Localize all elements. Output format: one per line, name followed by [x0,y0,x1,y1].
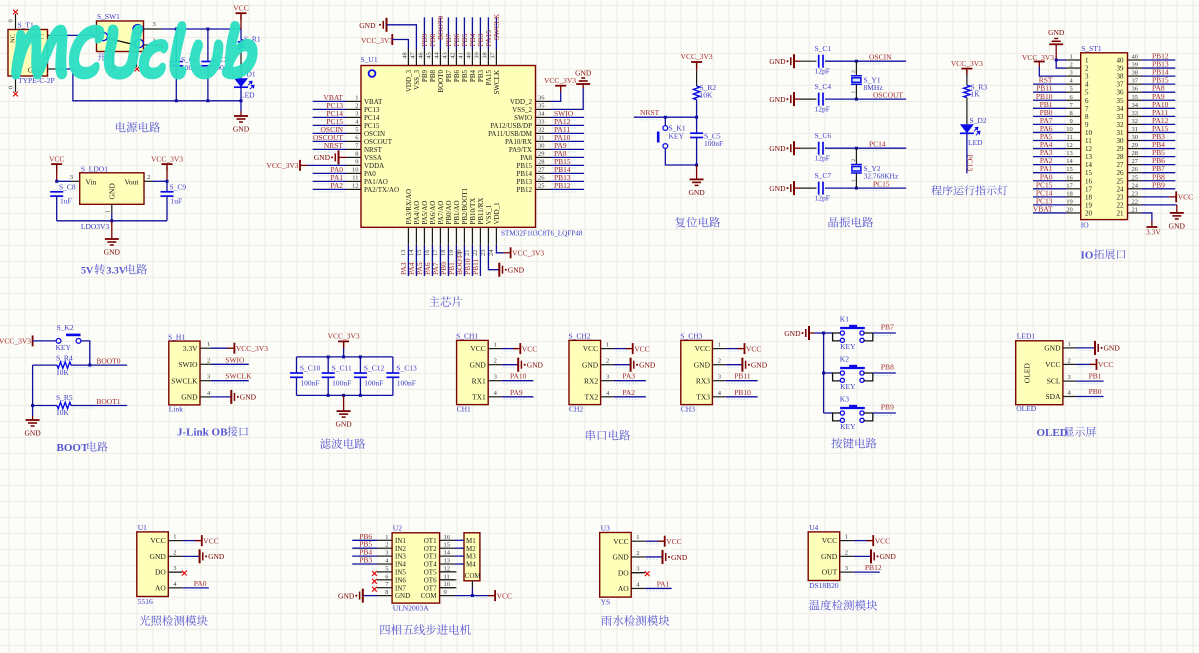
svg-text:37: 37 [1132,78,1139,85]
wire/net PA1 to ST1 pin 15 [1033,172,1066,174]
wire/net PB11 RX of S_CH3 [726,380,758,382]
power port VCC at LDO input [51,164,62,171]
wire/net PB11 at U1 pin 22 [479,245,481,276]
power VCC_3V3 at U1 VDDA [300,160,307,171]
svg-text:PC13: PC13 [364,106,380,114]
U1 pin 8 VSSA [346,156,361,158]
svg-text:10K: 10K [56,368,70,377]
junction R5 left [31,404,34,407]
U2 pin 4 IN4 [377,563,392,565]
LED1 pin 3 SCL [1063,380,1076,382]
svg-text:VCC: VCC [695,344,710,353]
ST1 pin 4 [1066,83,1081,85]
svg-text:33: 33 [1117,113,1125,121]
U1 pin 43 PB7 [447,50,449,66]
svg-text:S_C13: S_C13 [396,364,417,373]
ST1 pin 28 [1128,156,1143,158]
H1 pin 4 GND [200,396,211,398]
svg-text:3: 3 [1068,374,1071,381]
ST1 pin 14 [1066,164,1081,166]
U1 pin 23 VSS_1 [487,227,489,244]
wire/net VBAT to ST1 pin 20 [1033,212,1066,214]
switch S_SW1 [97,21,144,52]
svg-text:39: 39 [474,52,481,59]
U1 pin 4 AO [168,587,182,589]
svg-text:29: 29 [1132,142,1139,149]
svg-text:VSS_1: VSS_1 [485,204,493,224]
junction LED column at bottom rail [240,99,243,102]
wire U2 OT4 to M4 [455,563,464,565]
svg-text:GND: GND [108,183,117,200]
capacitor S_C8 1uF [50,192,63,196]
wire/net SWIO [211,363,249,365]
svg-text:PA7/AO: PA7/AO [437,201,445,225]
svg-text:IO: IO [1081,221,1089,230]
wire/net PA2 to ST1 pin 14 [1033,164,1066,166]
ground GND at U1 VSS_2 [551,88,584,109]
U4 pin 3 OUT [840,571,854,573]
svg-text:4: 4 [1085,81,1089,89]
ST1 pin 9 [1066,123,1081,125]
S_CH1 pin 3 RX1 [488,380,501,382]
svg-text:36: 36 [1117,89,1125,97]
svg-text:27: 27 [1117,161,1125,169]
svg-text:IO: IO [1081,249,1094,261]
svg-text:2: 2 [851,70,857,73]
SW1 bottom stubs no-connect [112,52,114,68]
svg-text:GND: GND [181,393,198,402]
capacitor S_C7 12pF [800,187,817,189]
svg-text:12: 12 [1066,142,1073,149]
title 滤波电路 [320,438,365,449]
svg-text:GND: GND [470,360,487,369]
svg-text:100nF: 100nF [704,139,723,148]
svg-text:12pF: 12pF [815,67,830,76]
svg-text:19: 19 [1085,201,1093,209]
ground GND at U3 [645,556,662,558]
svg-text:M1: M1 [466,537,476,545]
svg-text:40: 40 [1132,54,1139,61]
svg-text:9: 9 [355,159,358,166]
svg-text:2: 2 [1085,65,1089,73]
wire/net PA9 TX of S_CH1 [502,396,534,398]
U2 pin 15 OT2 [440,547,455,549]
svg-text:S_C7: S_C7 [815,171,832,180]
wire/net PA15 from ST1 pin 31 [1142,131,1175,133]
svg-text:3: 3 [355,111,358,118]
wire/net PA0 AO of U1 [182,587,209,589]
wire/net PA12 from ST1 pin 32 [1142,123,1175,125]
svg-text:PC15: PC15 [873,180,890,189]
S_CH1 pin 4 TX1 [488,396,501,398]
svg-text:GND: GND [1104,344,1121,353]
svg-text:S_CH3: S_CH3 [680,332,702,341]
sensor U4 DS18B20 [808,532,840,581]
U2 pin 14 OT3 [440,555,455,557]
title 四相五线步进电机 [380,624,470,635]
svg-text:GND: GND [208,552,225,561]
svg-text:24: 24 [1117,185,1125,193]
svg-text:OT7: OT7 [424,584,437,592]
junction filter rails [327,355,330,358]
svg-text:PB5: PB5 [461,70,469,83]
svg-text:PB0: PB0 [1089,387,1102,396]
wire T1 GND to bottom rail [48,68,61,70]
svg-text:12pF: 12pF [815,194,830,203]
U1 pin 1 VBAT [346,100,361,102]
power VCC_3V3 at U1 VDD_2 [551,92,561,101]
svg-text:11: 11 [352,175,358,182]
svg-text:PC15: PC15 [364,122,380,130]
svg-text:GND: GND [150,552,167,561]
svg-text:3: 3 [385,550,388,557]
svg-text:8: 8 [385,589,388,596]
U1 pin 31 PA10/RX [536,140,551,142]
svg-text:S_C11: S_C11 [332,364,352,373]
svg-text:3: 3 [494,374,497,381]
wire filter bottom rail [297,394,393,396]
svg-text:1: 1 [845,534,848,541]
svg-text:GND: GND [694,360,711,369]
wire/net PB1 at U1 pin 19 [455,245,457,276]
U1 pin 39 PB3 [479,50,481,66]
svg-text:DO: DO [155,568,166,577]
svg-text:SWIO: SWIO [514,114,532,122]
svg-text:VCC: VCC [666,537,681,546]
U1 pin 11 PA1/AO [346,180,361,182]
svg-text:2: 2 [606,358,609,365]
svg-text:VBAT: VBAT [1033,204,1053,213]
svg-text:37: 37 [1117,81,1125,89]
svg-text:31: 31 [1132,126,1139,133]
svg-text:VCC: VCC [613,537,628,546]
junction top rail at C2 [175,28,178,31]
svg-text:NRST: NRST [324,141,344,150]
svg-text:4: 4 [718,390,722,397]
ground GND reset circuit [696,165,698,175]
svg-text:26: 26 [1117,169,1125,177]
U2 pin 6 IN6 [377,579,392,581]
wire/net PA3 RX of S_CH2 [614,380,646,382]
svg-text:ULN2003A: ULN2003A [393,603,429,612]
svg-text:22: 22 [1117,201,1125,209]
junction COM/VCC [471,594,474,597]
svg-text:PA3/RX/AO: PA3/RX/AO [405,189,413,225]
svg-text:3.3V: 3.3V [1146,228,1161,237]
svg-text:M2: M2 [466,545,476,553]
svg-text:2: 2 [494,358,497,365]
svg-text:27: 27 [538,167,545,174]
U2 pin 5 IN5 [377,571,392,573]
svg-text:GND: GND [612,553,629,562]
svg-text:17: 17 [1085,185,1093,193]
crystal S_Y2 32.768KHz [855,148,857,164]
svg-text:11: 11 [1067,134,1073,141]
U2 pin 7 IN7 [377,587,392,589]
capacitor S_C5 100nF [696,117,698,133]
ST1 pin 34 [1128,107,1143,109]
wire/net PB12 from U1 pin 25 [551,188,585,190]
title 雨水检测模块 [601,615,669,626]
wire/net BOOT0 at U1 pin 44 [439,17,441,49]
svg-text:3: 3 [845,565,848,572]
wire GND to ST1 pins 1-2 [1055,44,1057,60]
label 开关 for SW1 [97,53,114,61]
wire/net PA3 to ST1 pin 13 [1033,156,1066,158]
svg-text:U1: U1 [138,523,147,532]
wire VCC bar down to rail [240,13,242,29]
svg-text:IN2: IN2 [395,545,406,553]
U1 pin 20 PB2/BOOT1 [463,227,465,244]
wire T1 VCC to SW1 pin2 [48,34,63,36]
wire/net PA2 TX of S_CH2 [614,396,646,398]
ground GND crystal row S_C6 [791,141,794,155]
svg-text:23: 23 [1117,193,1125,201]
svg-text:SWCLK: SWCLK [225,372,252,381]
power VCC_3V3 at U1 pin24 VDD_1 [496,245,503,253]
ST1 pin 17 [1066,188,1081,190]
svg-text:1: 1 [1068,341,1071,348]
H1 pin 1 3.3V [200,347,211,349]
svg-text:17: 17 [1066,182,1073,189]
svg-text:16: 16 [1066,174,1073,181]
svg-text:KEY: KEY [840,422,856,431]
svg-text:1: 1 [606,342,609,349]
svg-text:17: 17 [432,249,439,256]
ground GND at LED1 pin1 [1076,347,1095,349]
wire/net PB14 from ST1 pin 38 [1142,75,1175,77]
wire/net PB4 to U2 IN3 [352,555,377,557]
svg-text:47: 47 [410,51,417,58]
svg-text:GND: GND [751,361,768,370]
header S_CH2 serial port [569,340,601,404]
capacitor S_C1 12pF [800,60,817,62]
svg-text:4: 4 [494,390,498,397]
svg-text:GND: GND [671,553,688,562]
svg-text:M4: M4 [466,561,476,569]
U2 pin 10 OT7 [440,587,455,589]
svg-text:GND: GND [395,592,410,600]
svg-text:45: 45 [426,52,433,59]
svg-text:2: 2 [718,358,721,365]
svg-text:PB7: PB7 [881,323,894,332]
svg-text:15: 15 [444,542,451,549]
svg-text:KEY: KEY [669,131,685,140]
svg-text:1: 1 [718,342,721,349]
svg-text:100nF: 100nF [397,379,416,388]
svg-text:6: 6 [355,135,359,142]
wire/net PB9 from K3 [873,412,896,414]
svg-text:OSCOUT: OSCOUT [364,138,393,146]
svg-text:RX2: RX2 [584,376,598,385]
svg-text:24: 24 [488,249,495,256]
svg-text:35: 35 [1132,94,1139,101]
title 电源电路 [116,122,160,133]
wire/net PA5 to ST1 pin 11 [1033,140,1066,142]
wire/net BOOT1 at U1 pin 20 [463,245,465,276]
svg-text:34: 34 [538,111,545,118]
ST1 pin 11 [1066,140,1081,142]
wire K1 to GND rail [665,148,696,165]
capacitor S_C4 12pF [800,98,817,100]
svg-text:VDD_2: VDD_2 [510,98,533,106]
svg-text:13: 13 [1085,153,1093,161]
svg-text:100nF: 100nF [332,379,351,388]
svg-text:DO: DO [618,568,629,577]
svg-text:38: 38 [1117,73,1125,81]
svg-text:100nF: 100nF [364,379,383,388]
svg-text:1: 1 [494,342,497,349]
header S_H1 J-Link [169,341,200,405]
svg-text:31: 31 [538,135,545,142]
U1 pin 32 PA11/USB/DM [536,132,551,134]
svg-text:3: 3 [718,374,721,381]
svg-text:PB9: PB9 [1152,180,1165,189]
ST1 pin 2 [1066,67,1081,69]
resistor S_R3 1K [964,85,970,97]
ST1 pin 35 [1128,99,1143,101]
title 温度检测模块 [809,600,877,611]
wire/net PB3 at U1 pin 39 [479,17,481,49]
wire/net PB6 from ST1 pin 27 [1142,164,1175,166]
U1 pin 7 NRST [346,148,361,150]
svg-text:19: 19 [1066,198,1073,205]
wire/net PA6 at U1 pin 16 [431,245,433,276]
svg-text:32: 32 [538,127,545,134]
no-connect DO of U1 [168,571,181,573]
wire/net PA9 from ST1 pin 35 [1142,99,1175,101]
svg-text:VCC: VCC [203,536,218,545]
svg-text:PA8: PA8 [520,154,532,162]
title 按键电路 [831,438,876,449]
U3 pin 4 AO [631,587,645,589]
wire/net SWIO from U1 pin 34 [551,116,585,118]
U1 pin 9 VDDA [346,164,361,166]
svg-text:10K: 10K [700,90,714,99]
power port VCC_3V3 at LDO output [162,164,173,171]
svg-text:VCC: VCC [875,536,890,545]
svg-text:10: 10 [1085,129,1093,137]
U1 pin 37 SWCLK [495,50,497,66]
svg-text:9: 9 [1070,118,1073,125]
U1 pin 40 PB4 [471,50,473,66]
svg-text:2: 2 [207,357,210,364]
svg-text:39: 39 [1132,62,1139,69]
svg-text:PA1: PA1 [657,579,670,588]
wire/net PA4 at U1 pin 14 [415,245,417,276]
svg-text:9: 9 [1085,121,1089,129]
U1 pin 3 DO [168,571,182,573]
ground GND filter [343,395,345,407]
wire filter top rail [297,356,393,358]
svg-text:PB14: PB14 [516,170,532,178]
wire/net PB0 to ST1 pin 8 [1033,115,1066,117]
ground GND at U1 pin23 VSS_1 [488,245,499,270]
svg-text:2: 2 [1070,62,1073,69]
wire/net PB4 from ST1 pin 29 [1142,148,1175,150]
svg-text:31: 31 [1117,129,1125,137]
title 光照检测模块 [139,615,207,626]
svg-text:12: 12 [1085,145,1093,153]
svg-text:IN7: IN7 [395,584,406,592]
wire/net PB1 at LED1 SCL [1076,380,1104,382]
svg-text:TX3: TX3 [696,392,710,401]
svg-text:8MHz: 8MHz [864,83,884,92]
svg-text:3: 3 [207,374,210,381]
wire/net PB12 OUT of U4 [854,571,880,573]
svg-text:44: 44 [434,51,441,58]
svg-text:2: 2 [636,550,639,557]
svg-text:U2: U2 [393,523,402,532]
U1 pin 19 PB1/AO [455,227,457,244]
U1 pin 10 PA0 [346,172,361,174]
U2 pin 12 OT5 [440,571,455,573]
title 程序运行指示灯 [931,185,1007,195]
svg-text:4: 4 [207,390,211,397]
wire/net PB15 from ST1 pin 37 [1142,83,1175,85]
svg-text:41: 41 [458,52,465,59]
no-connect U2 IN6 [372,579,377,584]
display LED1 OLED [1016,341,1063,405]
svg-text:46: 46 [418,51,425,58]
wire cap to PC15 node [825,187,856,189]
svg-text:1: 1 [1070,54,1073,61]
svg-text:7: 7 [355,143,359,150]
svg-text:1: 1 [173,534,176,541]
svg-text:S_C10: S_C10 [300,364,321,373]
ST1 pin 23 [1128,196,1143,198]
svg-text:VCC: VCC [233,3,248,12]
svg-text:30: 30 [538,143,545,150]
svg-text:1: 1 [355,95,358,102]
svg-text:12pF: 12pF [815,154,830,163]
svg-text:29: 29 [538,151,545,158]
svg-text:PB8: PB8 [881,363,894,372]
ST1 pin 7 [1066,107,1081,109]
ground GND power circuit [240,110,242,113]
wire/net PA15 at U1 pin 38 [487,17,489,49]
svg-text:S_C9: S_C9 [170,183,187,192]
svg-text:BOOT: BOOT [57,442,89,454]
svg-text:PA11/USB/DM: PA11/USB/DM [488,130,533,138]
svg-text:S_LDO1: S_LDO1 [81,164,108,173]
wire cap to PC14 node [825,147,856,149]
svg-text:VCC_3V3: VCC_3V3 [361,36,393,45]
svg-text:3: 3 [70,174,73,181]
svg-text:YS: YS [601,597,611,606]
svg-text:VCC: VCC [746,344,761,353]
key S_K1 [664,117,666,125]
svg-text:13: 13 [400,250,407,257]
svg-text:S_D2: S_D2 [970,116,987,125]
svg-text:5: 5 [1070,86,1073,93]
resistor S_R1 1K [240,29,242,40]
wire R2 to NRST node [696,100,698,118]
svg-text:LED: LED [968,138,983,147]
svg-text:CH3: CH3 [681,404,695,413]
svg-text:S_K2: S_K2 [57,323,74,332]
U1 pin 2 GND [168,555,182,557]
svg-text:13: 13 [1066,150,1073,157]
svg-text:PA10: PA10 [510,372,527,381]
ground GND at U1 [182,555,199,557]
svg-text:PA12/USB/DP: PA12/USB/DP [490,122,532,130]
svg-text:KEY: KEY [840,382,856,391]
svg-text:GND: GND [335,420,352,429]
ground GND crystal row S_C1 [791,54,794,68]
svg-text:PA2: PA2 [622,388,635,397]
svg-text:S_C1: S_C1 [815,44,832,53]
